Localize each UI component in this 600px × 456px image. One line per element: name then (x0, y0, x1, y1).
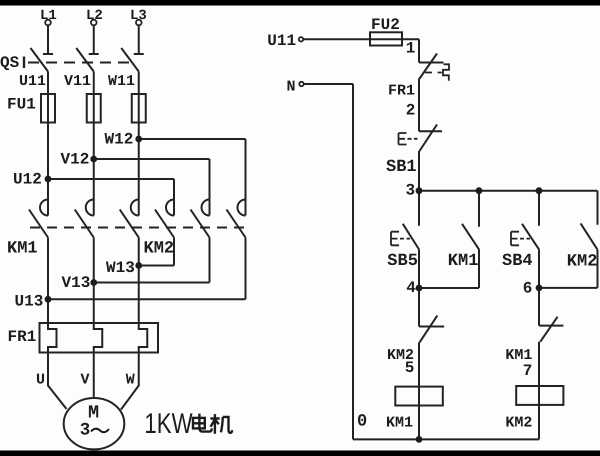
svg-text:SB5: SB5 (387, 252, 418, 271)
svg-text:QS: QS (0, 54, 20, 72)
svg-text:W12: W12 (105, 131, 134, 149)
svg-text:KM1: KM1 (386, 415, 413, 432)
svg-text:N: N (287, 78, 296, 95)
svg-text:KM1: KM1 (448, 252, 479, 271)
svg-text:3: 3 (80, 421, 91, 441)
svg-text:KM1: KM1 (7, 240, 38, 259)
svg-text:SB4: SB4 (502, 252, 533, 271)
svg-text:FR1: FR1 (388, 83, 415, 100)
svg-text:U11: U11 (267, 32, 296, 50)
svg-text:1: 1 (406, 39, 416, 57)
svg-text:6: 6 (523, 280, 533, 298)
svg-text:3: 3 (406, 182, 416, 200)
svg-text:L2: L2 (86, 8, 103, 24)
svg-text:L1: L1 (40, 8, 57, 24)
svg-text:W: W (126, 372, 135, 389)
svg-text:W13: W13 (106, 259, 135, 277)
svg-text:FU2: FU2 (371, 16, 400, 34)
svg-text:SB1: SB1 (386, 158, 417, 177)
svg-text:U: U (36, 372, 45, 389)
svg-text:U13: U13 (15, 293, 44, 311)
svg-text:U11: U11 (19, 73, 46, 90)
svg-text:V11: V11 (64, 73, 91, 90)
svg-text:KM2: KM2 (505, 415, 532, 432)
svg-text:W11: W11 (108, 73, 135, 90)
svg-text:KM2: KM2 (144, 240, 175, 259)
svg-text:1KW: 1KW (144, 408, 192, 440)
svg-text:5: 5 (405, 359, 415, 377)
svg-text:4: 4 (406, 279, 416, 297)
svg-text:V13: V13 (62, 274, 91, 292)
svg-text:7: 7 (523, 362, 533, 380)
svg-text:0: 0 (357, 413, 367, 432)
svg-text:U12: U12 (13, 171, 42, 189)
svg-text:FR1: FR1 (8, 328, 37, 346)
svg-text:V12: V12 (61, 151, 90, 169)
svg-text:KM2: KM2 (567, 253, 598, 272)
svg-text:L3: L3 (130, 8, 147, 24)
svg-text:2: 2 (406, 102, 416, 120)
svg-text:V: V (81, 372, 90, 389)
svg-text:FU1: FU1 (7, 96, 36, 114)
